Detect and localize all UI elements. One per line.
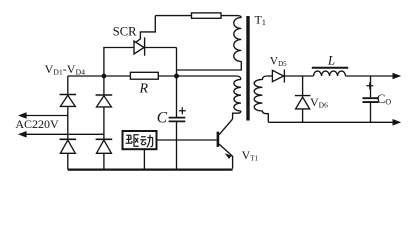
AC arrow upper xyxy=(18,112,27,119)
capacitor Co leads xyxy=(370,76,372,122)
diode VD2 xyxy=(96,94,113,96)
drive block glyph 动 xyxy=(140,135,153,148)
wire SCR loop right side down to node B xyxy=(176,48,178,77)
diode VD1 xyxy=(60,94,77,96)
wire primary bottom to collector xyxy=(233,111,241,119)
transistor VT1 collector xyxy=(219,119,233,135)
secondary ground rail xyxy=(268,121,394,123)
resistor R xyxy=(130,72,158,79)
capacitor C leads xyxy=(176,76,178,169)
capacitor C plates xyxy=(169,118,186,122)
transformer T1 core xyxy=(246,16,249,121)
output arrow plus xyxy=(393,73,402,80)
svg-text:R: R xyxy=(139,82,149,97)
node B junction dot R right xyxy=(174,74,179,79)
thyristor SCR xyxy=(134,16,177,56)
wire secondary top to VD5 xyxy=(267,75,272,77)
resistor unlabeled top xyxy=(192,13,222,18)
inductor L core bar xyxy=(312,67,348,69)
diode VD6 xyxy=(295,76,311,122)
svg-text:T1: T1 xyxy=(255,13,266,28)
node A junction dot bridge plus xyxy=(102,74,107,79)
drive block box xyxy=(123,131,157,149)
wire drive to base xyxy=(157,139,217,141)
svg-text:SCR: SCR xyxy=(113,25,137,39)
svg-text:L: L xyxy=(327,52,335,67)
transformer T1 feedback winding top-left xyxy=(234,18,242,62)
AC arrow lower xyxy=(18,131,27,138)
svg-text:VT1: VT1 xyxy=(242,148,259,163)
wire bridge+ node line from left leg to R and primary winding xyxy=(68,76,241,79)
output arrow minus xyxy=(393,119,402,126)
transistor VT1 emitter xyxy=(219,144,233,169)
wire top gate feed line xyxy=(155,16,241,18)
bridge right leg top xyxy=(103,76,105,94)
svg-text:VD1-VD4: VD1-VD4 xyxy=(45,62,86,77)
drive block glyph 驱 xyxy=(126,135,139,147)
diode VD4 xyxy=(96,138,113,140)
diode VD3 xyxy=(60,138,77,140)
transistor VT1 base bar xyxy=(217,132,220,147)
svg-text:VD6: VD6 xyxy=(310,95,328,109)
wire L to output plus xyxy=(346,75,395,77)
wire SCR anode row xyxy=(104,48,134,77)
wire AC input upper xyxy=(22,115,68,117)
ground rail bottom xyxy=(68,169,233,171)
inductor L winding xyxy=(314,71,346,76)
transformer T1 primary winding bottom-left xyxy=(234,79,241,111)
capacitor C plus sign xyxy=(179,107,186,114)
svg-text:C: C xyxy=(157,110,168,127)
wire AC input lower xyxy=(22,133,104,135)
capacitor Co plates xyxy=(363,98,379,102)
diode VD5 xyxy=(272,70,313,83)
svg-text:AC220V: AC220V xyxy=(15,117,59,131)
transformer T1 secondary winding right xyxy=(254,76,268,122)
capacitor Co plus sign xyxy=(366,82,373,89)
svg-text:VD5: VD5 xyxy=(270,55,287,67)
bridge left leg top xyxy=(67,76,69,94)
svg-text:CO: CO xyxy=(377,92,391,107)
transistor VT1 emitter arrow xyxy=(225,153,232,159)
wire drive block ground lead xyxy=(143,149,145,168)
wire feedback winding return xyxy=(177,61,242,70)
